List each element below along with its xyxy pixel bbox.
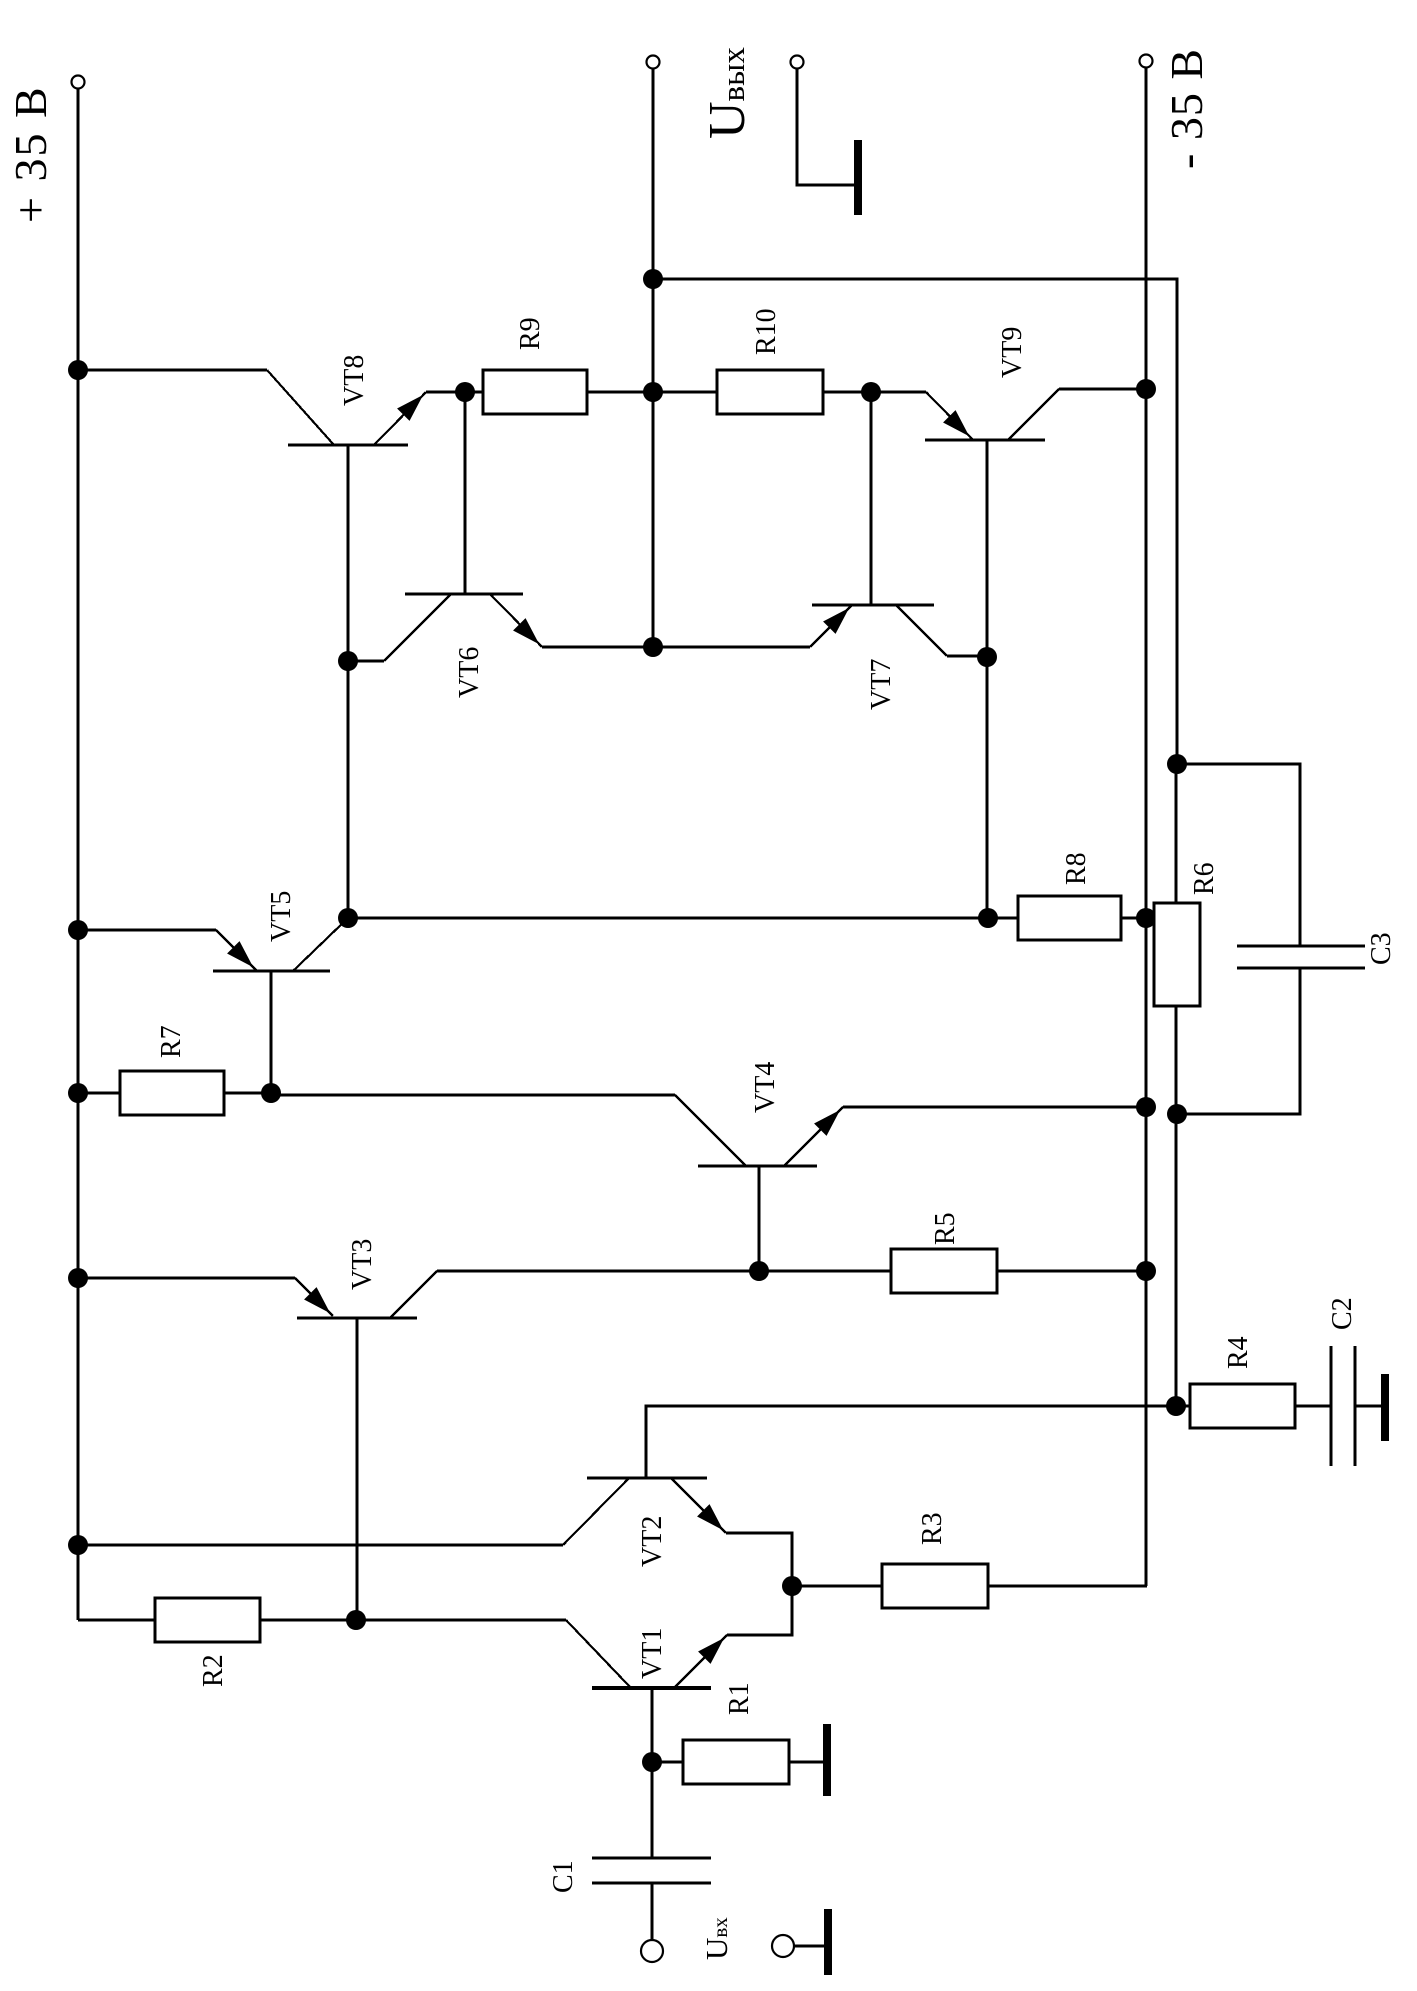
- capacitor C1 plate 2: [592, 1856, 711, 1859]
- node B junction: [642, 1752, 662, 1772]
- svg-text:C3: C3: [1366, 932, 1397, 965]
- svg-text:VT3: VT3: [347, 1239, 378, 1290]
- wire rail to R7: [78, 1092, 120, 1095]
- wire node C to VT4 collector: [271, 1094, 675, 1097]
- ground bar (output): [854, 140, 862, 215]
- node VT4 emitter rail junction: [1136, 1097, 1156, 1117]
- node R9/R10 output junction: [643, 382, 663, 402]
- wire R5 to rail: [997, 1270, 1146, 1273]
- resistor R6: [1154, 903, 1200, 1006]
- svg-text:VT9: VT9: [997, 327, 1028, 378]
- output terminal: [647, 56, 660, 69]
- svg-text:VT4: VT4: [750, 1062, 781, 1113]
- svg-text:R5: R5: [930, 1212, 961, 1245]
- transistor VT3 base bar: [297, 1317, 417, 1320]
- node E junction: [338, 651, 358, 671]
- wire node A down: [356, 1619, 566, 1622]
- VT9 emitter arrow: [944, 411, 968, 435]
- wire output to R6 line: [653, 279, 1177, 764]
- node VT2 base / R4 junction: [1166, 1396, 1186, 1416]
- wire VT5 collector: [293, 918, 348, 971]
- resistor R3: [882, 1564, 988, 1608]
- node A junction: [346, 1610, 366, 1630]
- wire VT7 base lead: [870, 392, 873, 605]
- node VT5 emitter rail junction: [68, 920, 88, 940]
- wire R3 to -35V rail: [988, 1585, 1147, 1588]
- svg-text:VT8: VT8: [339, 355, 370, 406]
- node F junction: [978, 908, 998, 928]
- wire +35V top rail: [77, 82, 80, 1620]
- wire VT2 collector: [78, 1544, 563, 1547]
- wire VT6 collector: [348, 660, 384, 663]
- wire output Uvyh line: [652, 68, 655, 647]
- VT2 emitter arrow: [698, 1505, 722, 1529]
- resistor R4: [1190, 1384, 1295, 1428]
- wire VT9 emitter: [871, 391, 926, 394]
- VT4 emitter arrow: [815, 1111, 839, 1135]
- svg-text:R9: R9: [515, 317, 546, 350]
- wire node to R4: [1176, 1405, 1190, 1408]
- wire rail to R2: [78, 1619, 155, 1622]
- node VT4 base junction: [749, 1261, 769, 1281]
- node VT8 collector rail junction: [68, 360, 88, 380]
- capacitor C2 plate 1: [1329, 1346, 1332, 1466]
- resistor R8: [1018, 896, 1121, 940]
- node R6 right junction: [1167, 754, 1187, 774]
- svg-text:VT6: VT6: [454, 647, 485, 698]
- wire VT6 collector diag: [384, 594, 451, 661]
- svg-text:R8: R8: [1061, 852, 1092, 885]
- wire C3 top branch: [1177, 764, 1300, 946]
- node VT2 collector rail junction: [68, 1535, 88, 1555]
- svg-text:VT7: VT7: [866, 659, 897, 710]
- capacitor C2 plate 2: [1353, 1346, 1356, 1466]
- VT8 emitter arrow: [398, 396, 422, 420]
- resistor R7: [120, 1071, 224, 1115]
- wire y987 bus: [986, 440, 989, 918]
- wire VT1 collector diagonal: [566, 1620, 631, 1688]
- svg-text:R4: R4: [1223, 1336, 1254, 1369]
- node D junction: [338, 908, 358, 928]
- wire VT4 base to R5: [759, 1270, 891, 1273]
- wire VT2 emitter diag: [671, 1478, 726, 1533]
- wire VT9 emitter diag: [926, 392, 973, 440]
- wire VT8 emitter to R9: [465, 391, 483, 394]
- node R6 left junction: [1167, 1104, 1187, 1124]
- wire node C to VT5 base: [270, 971, 273, 1093]
- wire VT4 collector diag: [675, 1095, 746, 1166]
- output ground terminal: [791, 56, 804, 69]
- wire VT4 emitter diag: [784, 1107, 843, 1166]
- capacitor C3 plate 2: [1237, 966, 1365, 969]
- wire VT8 emitter: [426, 391, 465, 394]
- svg-text:R7: R7: [156, 1025, 187, 1058]
- wire VT9 collector: [1059, 388, 1146, 391]
- resistor R2: [155, 1598, 260, 1642]
- wire VT1 emitter diag: [674, 1635, 727, 1688]
- wire VT7 collector diag: [896, 605, 947, 656]
- wire VT3 collector diag: [390, 1271, 437, 1318]
- transistor VT6 base bar: [405, 593, 523, 596]
- svg-text:VT5: VT5: [266, 891, 297, 942]
- wire R9 to output: [587, 391, 653, 394]
- -35V terminal: [1140, 55, 1153, 68]
- svg-text:R6: R6: [1189, 862, 1220, 895]
- node R7 rail junction: [68, 1083, 88, 1103]
- transistor VT1 base bar: [592, 1686, 711, 1690]
- wire VT3 emitter: [78, 1277, 295, 1280]
- capacitor C1 plate 1: [592, 1881, 711, 1884]
- wire R1 to ground: [789, 1761, 824, 1764]
- wire VT4 collector: [271, 1094, 675, 1097]
- wire R10 to node H: [823, 391, 871, 394]
- ground bar (R1): [823, 1724, 831, 1796]
- wire VT7 collector: [947, 655, 986, 658]
- node VT6/VT7 emitter junction: [643, 637, 663, 657]
- transistor VT2 base bar: [587, 1477, 707, 1480]
- node H junction: [861, 382, 881, 402]
- VT7 emitter arrow: [824, 609, 848, 633]
- node R8 rail junction: [1136, 908, 1156, 928]
- node output corner junction: [643, 269, 663, 289]
- VT6 emitter arrow: [514, 619, 538, 643]
- node VT3 emitter rail junction: [68, 1268, 88, 1288]
- wire VT3 base lead: [356, 1318, 359, 1620]
- wire VT7 emitter diagonal: [810, 605, 852, 647]
- wire R2 to node A: [260, 1619, 356, 1622]
- wire R4 to C2: [1295, 1405, 1331, 1408]
- svg-text:C2: C2: [1327, 1297, 1358, 1330]
- svg-text:VT1: VT1: [637, 1628, 668, 1679]
- input terminal Uvh: [641, 1940, 663, 1962]
- wire VT6 base lead: [464, 392, 467, 594]
- resistor R5: [891, 1249, 997, 1293]
- svg-text:- 35 В: - 35 В: [1161, 48, 1212, 169]
- resistor R9: [483, 370, 587, 414]
- wire C3 bottom branch: [1177, 968, 1300, 1114]
- wire VT9 collector diag: [1008, 389, 1059, 440]
- +35V terminal: [72, 76, 85, 89]
- wire -35V bottom rail: [1145, 67, 1148, 1586]
- wire VT8 collector: [78, 369, 267, 372]
- wire VT8 base bus: [347, 445, 350, 918]
- wire VT3 emitter diag: [295, 1278, 333, 1316]
- svg-text:R1: R1: [724, 1682, 755, 1715]
- wire VT1 base lead: [651, 1688, 654, 1762]
- wire node D down: [348, 917, 988, 920]
- ground bar (C2): [1381, 1374, 1389, 1441]
- wire emitters to R3: [792, 1585, 882, 1588]
- svg-text:R10: R10: [751, 308, 782, 355]
- wire VT6/VT7 emitter line: [542, 646, 810, 649]
- svg-text:C1: C1: [548, 1860, 579, 1893]
- wire node B to R1: [652, 1761, 683, 1764]
- wire VT2 emitter: [726, 1533, 792, 1586]
- node VT8 emitter junction: [455, 382, 475, 402]
- wire input ground: [793, 1945, 824, 1948]
- transistor VT5 base bar: [213, 970, 330, 973]
- wire C2 to ground: [1355, 1405, 1381, 1408]
- ground bar (input): [824, 1909, 832, 1975]
- wire VT2 base lead: [646, 1406, 1176, 1478]
- resistor R1: [683, 1740, 789, 1784]
- wire node F to R8: [988, 917, 1018, 920]
- wire R8 to rail: [1121, 917, 1146, 920]
- wire input to C1: [651, 1883, 654, 1940]
- svg-text:VT2: VT2: [637, 1516, 668, 1567]
- VT3 emitter arrow: [305, 1288, 329, 1312]
- wire R7 to node C: [224, 1092, 271, 1095]
- resistor R10: [717, 370, 823, 414]
- node R5 rail junction: [1136, 1261, 1156, 1281]
- svg-text:+ 35 В: + 35 В: [5, 85, 56, 223]
- node VT9 collector rail junction: [1136, 379, 1156, 399]
- wire output to R10: [653, 391, 717, 394]
- wire VT8 emitter diag: [374, 392, 426, 445]
- node C junction: [261, 1083, 281, 1103]
- wire VT4 emitter: [843, 1106, 1146, 1109]
- wire VT4 base lead: [758, 1166, 761, 1271]
- input ground terminal: [772, 1935, 794, 1957]
- svg-text:R2: R2: [198, 1654, 229, 1687]
- transistor VT9 base bar: [925, 439, 1045, 442]
- wire VT6 emitter diag: [490, 594, 542, 647]
- wire C1 to node B: [651, 1762, 654, 1858]
- transistor VT8 base bar: [288, 444, 408, 447]
- wire output ground lead: [797, 68, 855, 185]
- wire VT8 collector diag: [267, 370, 334, 445]
- wire VT2 collector diag: [563, 1478, 629, 1545]
- wire VT5 emitter diag: [216, 930, 257, 971]
- svg-text:R3: R3: [917, 1512, 948, 1545]
- transistor VT4 base bar: [698, 1165, 817, 1168]
- transistor VT7 base bar: [812, 604, 934, 607]
- capacitor C3 plate 1: [1237, 944, 1365, 947]
- node G junction: [977, 647, 997, 667]
- VT1 emitter arrow: [699, 1639, 723, 1663]
- node VT1/VT2 emitters: [782, 1576, 802, 1596]
- wire VT1 emitter: [727, 1586, 792, 1635]
- VT5 emitter arrow: [228, 942, 252, 966]
- wire VT3 collector: [437, 1270, 759, 1273]
- wire R6 line: [1175, 764, 1178, 1406]
- wire VT5 emitter: [78, 929, 216, 932]
